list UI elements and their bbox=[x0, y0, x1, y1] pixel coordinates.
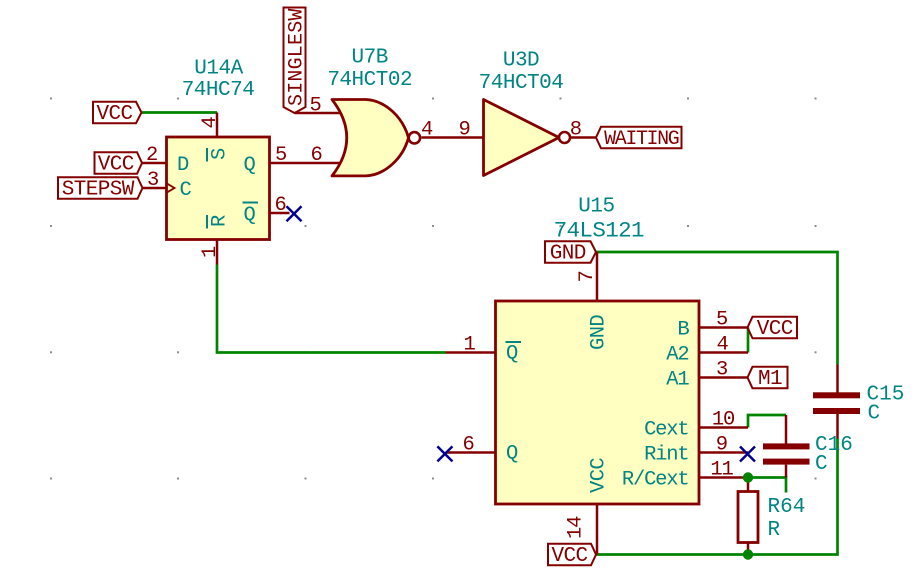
svg-text:C: C bbox=[180, 179, 192, 202]
capacitor C15 bbox=[813, 365, 904, 439]
svg-text:R: R bbox=[209, 215, 232, 227]
U15 pin 7 (GND top) bbox=[576, 252, 611, 350]
svg-text:S: S bbox=[209, 148, 232, 160]
global label M1 bbox=[748, 367, 788, 391]
global label WAITING bbox=[596, 127, 682, 151]
svg-text:5: 5 bbox=[716, 309, 727, 332]
U14A pin 1 (R) bbox=[199, 215, 232, 265]
svg-text:R64: R64 bbox=[768, 496, 806, 519]
svg-text:1: 1 bbox=[199, 246, 222, 258]
svg-text:D: D bbox=[177, 154, 189, 177]
svg-text:U7B: U7B bbox=[352, 47, 388, 70]
U15 pin 4 (A2) bbox=[666, 334, 748, 367]
U14A pin 3 (C clock) bbox=[142, 169, 192, 202]
svg-text:6: 6 bbox=[274, 194, 285, 217]
svg-text:SINGLESW: SINGLESW bbox=[285, 8, 308, 106]
wire GND label to C15 top bbox=[596, 252, 838, 365]
global label VCC (bottom) bbox=[548, 544, 596, 568]
U15 pin 14 (VCC bottom) bbox=[565, 458, 611, 555]
global label VCC (left of D) bbox=[95, 152, 143, 176]
U14A pin 4 (S) bbox=[199, 113, 232, 162]
capacitor C16 bbox=[763, 415, 853, 478]
U14A pin 5 (Q) joined to U7B input pin 6 bbox=[244, 144, 342, 177]
svg-text:VCC: VCC bbox=[551, 545, 587, 568]
U14A pin 2 (D) bbox=[142, 144, 190, 177]
svg-text:A2: A2 bbox=[666, 344, 688, 367]
resistor R64 bbox=[738, 478, 805, 555]
global label STEPSW bbox=[58, 177, 143, 201]
svg-text:4: 4 bbox=[421, 119, 433, 142]
svg-text:A1: A1 bbox=[666, 369, 689, 392]
NOR gate U7B 74HCT02 bbox=[295, 47, 484, 176]
U15 pin 1 (Qbar, left) bbox=[446, 334, 522, 366]
wire VCC label to U15 pin 4 (A2) bbox=[747, 328, 750, 353]
U15 pin 3 (A1) bbox=[666, 359, 748, 392]
svg-text:Cext: Cext bbox=[644, 419, 688, 442]
wire U15 Cext pin 10 to C16 top bbox=[748, 415, 786, 428]
global label GND bbox=[545, 241, 596, 265]
svg-text:14: 14 bbox=[565, 516, 588, 539]
svg-text:Q: Q bbox=[506, 443, 518, 466]
global label SINGLESW bbox=[284, 8, 309, 114]
svg-text:10: 10 bbox=[712, 409, 735, 432]
svg-text:74HCT04: 74HCT04 bbox=[479, 72, 564, 95]
wire bottom VCC rail bbox=[596, 439, 838, 555]
svg-text:1: 1 bbox=[463, 334, 475, 357]
svg-text:4: 4 bbox=[199, 117, 222, 129]
U15 pin 9 (Rint) bbox=[644, 434, 748, 467]
svg-text:4: 4 bbox=[716, 334, 728, 357]
svg-text:GND: GND bbox=[588, 315, 611, 350]
svg-text:C: C bbox=[868, 403, 881, 426]
no-connect X on U14A pin 6 bbox=[287, 206, 302, 221]
IC U15 74LS121 body bbox=[496, 195, 700, 504]
svg-text:74HC74: 74HC74 bbox=[182, 79, 255, 102]
svg-text:VCC: VCC bbox=[96, 103, 132, 126]
svg-text:VCC: VCC bbox=[757, 318, 793, 341]
svg-text:74LS121: 74LS121 bbox=[554, 218, 644, 244]
wire VCC to U14A pin 4 bbox=[141, 111, 217, 114]
svg-text:2: 2 bbox=[146, 144, 157, 167]
svg-text:11: 11 bbox=[710, 459, 733, 482]
svg-text:Q: Q bbox=[244, 204, 256, 227]
svg-text:GND: GND bbox=[550, 243, 586, 266]
no-connect X on U15 pin 6 bbox=[437, 446, 452, 461]
svg-text:5: 5 bbox=[309, 95, 320, 118]
svg-text:Q: Q bbox=[506, 343, 518, 366]
svg-text:U14A: U14A bbox=[194, 57, 243, 80]
svg-text:9: 9 bbox=[458, 119, 469, 142]
svg-text:Q: Q bbox=[244, 154, 256, 177]
svg-text:8: 8 bbox=[570, 119, 581, 142]
svg-text:B: B bbox=[677, 319, 689, 342]
svg-text:3: 3 bbox=[716, 359, 727, 382]
svg-text:7: 7 bbox=[576, 271, 599, 282]
IC U14A 74HC74 flip-flop body bbox=[167, 57, 270, 239]
svg-text:M1: M1 bbox=[758, 368, 782, 391]
U15 pin 11 (R/Cext) bbox=[622, 459, 748, 492]
svg-text:VCC: VCC bbox=[588, 458, 611, 493]
global label VCC (right of U15) bbox=[748, 317, 798, 341]
svg-text:R: R bbox=[768, 519, 781, 542]
svg-text:Rint: Rint bbox=[644, 444, 688, 467]
svg-text:9: 9 bbox=[716, 434, 727, 457]
svg-text:74HCT02: 74HCT02 bbox=[327, 69, 412, 92]
svg-text:WAITING: WAITING bbox=[604, 128, 679, 151]
wire U14A pin 1 to U15 pin 1 bbox=[217, 265, 446, 353]
global label VCC (top left) bbox=[93, 102, 142, 126]
U14A pin 6 (Qbar) bbox=[243, 194, 290, 227]
U15 pin 10 (Cext) bbox=[644, 409, 748, 442]
wire R/Cext node to C16 bottom bbox=[748, 478, 786, 493]
svg-text:U3D: U3D bbox=[503, 50, 539, 73]
svg-text:5: 5 bbox=[275, 144, 286, 167]
junction at R/Cext node bbox=[743, 472, 753, 482]
svg-text:VCC: VCC bbox=[98, 154, 134, 177]
junction at bottom VCC rail bbox=[743, 549, 753, 559]
svg-text:STEPSW: STEPSW bbox=[62, 179, 135, 202]
svg-text:R/Cext: R/Cext bbox=[622, 469, 689, 492]
U15 pin 5 (B) bbox=[677, 309, 748, 342]
no-connect X on U15 pin 9 bbox=[740, 447, 755, 462]
svg-text:6: 6 bbox=[462, 434, 473, 457]
svg-text:C: C bbox=[815, 453, 828, 476]
U15 pin 6 (Q, left) bbox=[446, 434, 519, 466]
svg-text:3: 3 bbox=[147, 169, 158, 192]
svg-text:U15: U15 bbox=[578, 195, 614, 218]
inverter U3D 74HCT04 bbox=[479, 50, 596, 176]
svg-text:6: 6 bbox=[310, 144, 321, 167]
